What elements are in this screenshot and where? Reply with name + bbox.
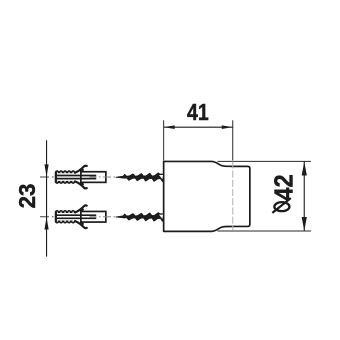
dimension line 23 (vertical, left) <box>46 140 48 256</box>
centerline lower screw axis <box>40 216 175 218</box>
screw lower <box>116 212 164 221</box>
extension line top (diameter 42) <box>217 160 311 162</box>
svg-text:42: 42 <box>271 174 299 200</box>
extension line bottom (diameter 42) <box>217 230 311 232</box>
dimension line 41 <box>164 126 233 128</box>
svg-text:23: 23 <box>13 184 40 209</box>
svg-text:41: 41 <box>187 99 209 125</box>
dimension line diameter 42 <box>303 161 305 231</box>
extension line right (41) <box>232 120 234 160</box>
holder body outline <box>164 161 250 231</box>
centerline upper screw axis <box>40 176 175 178</box>
diameter symbol of 42 <box>274 202 289 211</box>
wall plug lower <box>55 205 122 228</box>
screw upper <box>116 173 164 182</box>
wall plug upper <box>55 166 122 189</box>
extension line left (41) <box>163 120 165 160</box>
